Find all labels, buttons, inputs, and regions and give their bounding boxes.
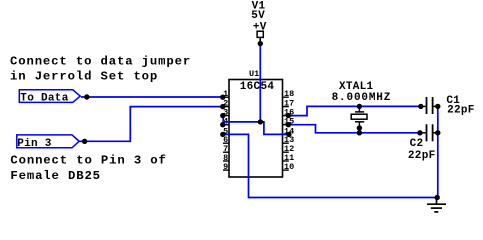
right plate [432,97,434,114]
svg-text:8.000MHZ: 8.000MHZ [332,92,392,104]
wire pin 16 OSC1 to crystal top and C1 [288,106,420,115]
pin numbers left 1-9 [223,89,228,172]
svg-text:in Jerrold Set top: in Jerrold Set top [10,70,158,84]
left junction dot [418,104,423,109]
svg-text:22pF: 22pF [447,105,475,117]
pin numbers right 18-10 [284,89,294,172]
wire pins3/4 to VDD node [223,121,260,123]
bottom electrode [355,121,364,123]
svg-text:Connect to data jumper: Connect to data jumper [10,54,191,68]
top stem [358,106,360,112]
power terminal square [257,31,263,37]
right lead [433,132,437,134]
wire pin3-pin4 tie [222,116,224,125]
right lead [433,105,437,107]
left plate [426,97,428,114]
wire +V down to VDD node [259,44,261,122]
bottom stem [358,122,360,128]
svg-text:22pF: 22pF [408,150,436,162]
svg-text:Pin 3: Pin 3 [17,138,52,150]
ground junction dot [435,195,440,200]
svg-text:5V: 5V [251,10,265,22]
svg-text:XTAL1: XTAL1 [339,81,374,93]
wire Pin 3 flag to riser [80,107,223,142]
junction dot To Data [84,94,89,99]
top electrode [355,111,364,113]
power terminal stem [259,37,261,41]
left plate [426,124,428,141]
ground [427,198,446,212]
junction dot VDD node [258,119,263,124]
wire To Data to pin 1 [81,96,223,98]
bottom junction dot [357,130,362,135]
capacitor C1 [418,95,475,116]
wire VDD node to pin 14 [260,122,289,134]
svg-text:C2: C2 [410,138,424,150]
svg-text:To Data: To Data [20,93,68,105]
right junction dot [435,104,440,109]
crystal pin dot [357,125,362,130]
svg-text:10: 10 [284,162,294,172]
left lead [421,105,426,107]
right junction dot [435,130,440,135]
wire crystal bottom stub [358,128,360,133]
op-amp U1 body (16C54 chip rectangle) [229,80,283,178]
junction dots right pins [286,113,291,118]
svg-text:Female DB25: Female DB25 [10,169,101,183]
capacitor C2 [408,124,441,162]
wire pin 5 VSS to ground rail [223,134,438,197]
chip pin stubs right pins 18-10 [283,97,289,170]
left lead [420,132,426,134]
svg-text:U1: U1 [249,69,259,79]
crystal XTAL1 [332,81,392,136]
svg-text:16C54: 16C54 [240,81,275,93]
junction dots left pins [220,95,225,100]
junction dot Pin 3 [82,139,87,144]
crystal body [351,114,367,119]
wire C1 right down through C2 right to ground [437,106,439,197]
junction dot +V [258,41,263,46]
top junction dot [357,104,362,109]
right plate [432,124,434,141]
node To Data flag [19,90,80,103]
svg-text:9: 9 [223,162,228,172]
wire pin 15 OSC2 to crystal bottom and C2 [288,125,420,133]
left junction dot [417,130,422,135]
svg-text:Connect to Pin 3 of: Connect to Pin 3 of [10,154,166,168]
chip pin stubs left pins 1-9 [223,97,229,170]
node Pin 3 flag [17,135,79,148]
